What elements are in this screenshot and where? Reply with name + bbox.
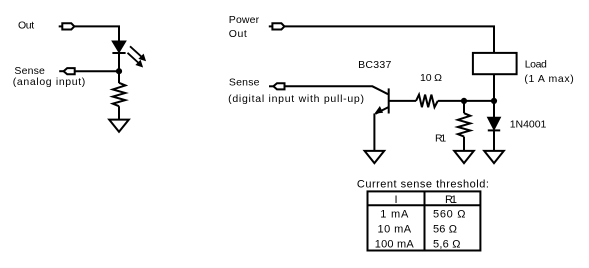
svg-text:Out: Out — [229, 28, 247, 40]
diode 1N4001 — [488, 117, 500, 130]
wire junction to diode — [493, 101, 495, 118]
wire diode to ground — [493, 130, 495, 151]
wire junction to R1 — [463, 101, 465, 113]
ground (R1) — [454, 151, 474, 163]
junction dot (left circuit) — [116, 68, 122, 74]
svg-text:R1: R1 — [435, 132, 446, 144]
connector Sense (right circuit) — [269, 83, 285, 89]
connector Out (left circuit) — [59, 23, 75, 29]
LED D1 — [112, 41, 145, 66]
svg-text:Power: Power — [229, 14, 260, 26]
svg-text:Out: Out — [18, 20, 34, 32]
svg-text:1 mA: 1 mA — [380, 208, 409, 220]
ground (emitter) — [365, 151, 385, 163]
label Load (1 A max) — [524, 58, 573, 85]
connector Sense (left circuit) — [59, 68, 74, 74]
svg-text:I: I — [395, 194, 398, 206]
resistor 10 ohm — [416, 95, 438, 108]
ground (left circuit) — [109, 120, 129, 132]
wire emitter to ground — [373, 114, 375, 151]
wire resistor to junctions — [438, 100, 494, 102]
svg-text:R1: R1 — [445, 194, 457, 206]
svg-text:560 Ω: 560 Ω — [433, 208, 466, 220]
wire Out to LED — [74, 26, 119, 41]
wire LED to junction — [118, 53, 120, 83]
wire Sense to junction — [75, 70, 119, 72]
svg-text:10 Ω: 10 Ω — [420, 72, 442, 84]
svg-text:100 mA: 100 mA — [375, 238, 415, 250]
node Sense (analog input) label — [13, 65, 86, 88]
ground (diode) — [484, 151, 504, 163]
wire Power Out to Load — [284, 26, 494, 53]
load (resistive) box — [473, 53, 517, 74]
resistor R1 — [458, 113, 471, 136]
svg-text:(1 A max): (1 A max) — [524, 73, 573, 85]
wire Load to junction — [493, 74, 495, 101]
svg-text:5,6 Ω: 5,6 Ω — [433, 238, 461, 250]
table frame — [368, 191, 481, 250]
node Sense (digital input) label — [228, 76, 364, 105]
junction dot at R1 — [461, 98, 467, 104]
svg-text:Current sense threshold:: Current sense threshold: — [357, 178, 489, 190]
node Power Out label — [229, 14, 260, 40]
svg-text:56 Ω: 56 Ω — [433, 223, 457, 235]
svg-text:(digital input with pull-up): (digital input with pull-up) — [228, 93, 364, 105]
svg-text:10 mA: 10 mA — [378, 223, 412, 235]
svg-text:(analog input): (analog input) — [13, 76, 86, 88]
wire R1 to ground — [463, 137, 465, 151]
svg-text:Sense: Sense — [229, 76, 260, 88]
wire resistor to ground — [118, 106, 120, 119]
connector Power Out — [269, 23, 285, 29]
svg-text:Load: Load — [525, 58, 547, 70]
junction dot at diode — [491, 98, 497, 104]
transistor Q1 BC337 — [375, 88, 389, 113]
resistor (left circuit, unlabeled) — [113, 83, 126, 106]
wire Sense to transistor base — [285, 86, 389, 94]
svg-text:1N4001: 1N4001 — [510, 119, 547, 131]
wire collector to resistor — [389, 100, 416, 102]
svg-text:BC337: BC337 — [358, 59, 391, 71]
